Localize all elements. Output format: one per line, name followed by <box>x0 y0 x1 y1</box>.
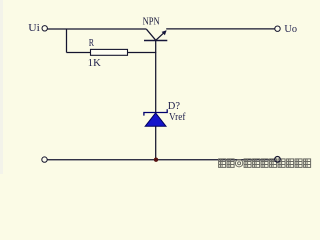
wire emitter to Uo terminal <box>166 28 275 30</box>
svg-text:1K: 1K <box>88 58 101 69</box>
resistor R body <box>91 49 128 55</box>
svg-text:R: R <box>89 38 94 49</box>
wire zener anode down to ground rail <box>155 126 157 160</box>
wire resistor right lead to transistor base line <box>128 52 157 54</box>
junction dot at zener / ground rail <box>154 158 158 162</box>
wire bottom ground rail <box>47 159 275 161</box>
svg-text:Uo: Uo <box>284 24 297 35</box>
watermark (gray CJK-like glyph blobs) <box>219 159 311 168</box>
transistor Q1 NPN: emitter arrowhead <box>162 30 167 35</box>
transistor Q1 NPN: emitter diagonal <box>156 31 166 40</box>
wire vertical drop to resistor branch <box>66 29 68 53</box>
zener diode D? cathode bar <box>144 109 167 115</box>
node bottom-left terminal <box>42 157 47 162</box>
transistor Q1 NPN: base bar <box>144 40 167 42</box>
svg-text:Vref: Vref <box>169 112 186 123</box>
wire horizontal to resistor left lead <box>67 52 91 54</box>
wire from Ui terminal to transistor collector <box>47 28 146 30</box>
node Uo output terminal <box>275 26 280 31</box>
node Ui input terminal <box>42 26 47 31</box>
node bottom-right terminal <box>275 157 281 163</box>
transistor Q1 NPN: base vertical lead down to zener <box>155 41 157 113</box>
transistor Q1 NPN: collector diagonal <box>146 29 155 40</box>
svg-text:D?: D? <box>168 101 181 112</box>
svg-text:Ui: Ui <box>28 23 40 34</box>
zener diode D? triangle (anode) <box>145 113 166 126</box>
svg-text:NPN: NPN <box>143 16 160 27</box>
